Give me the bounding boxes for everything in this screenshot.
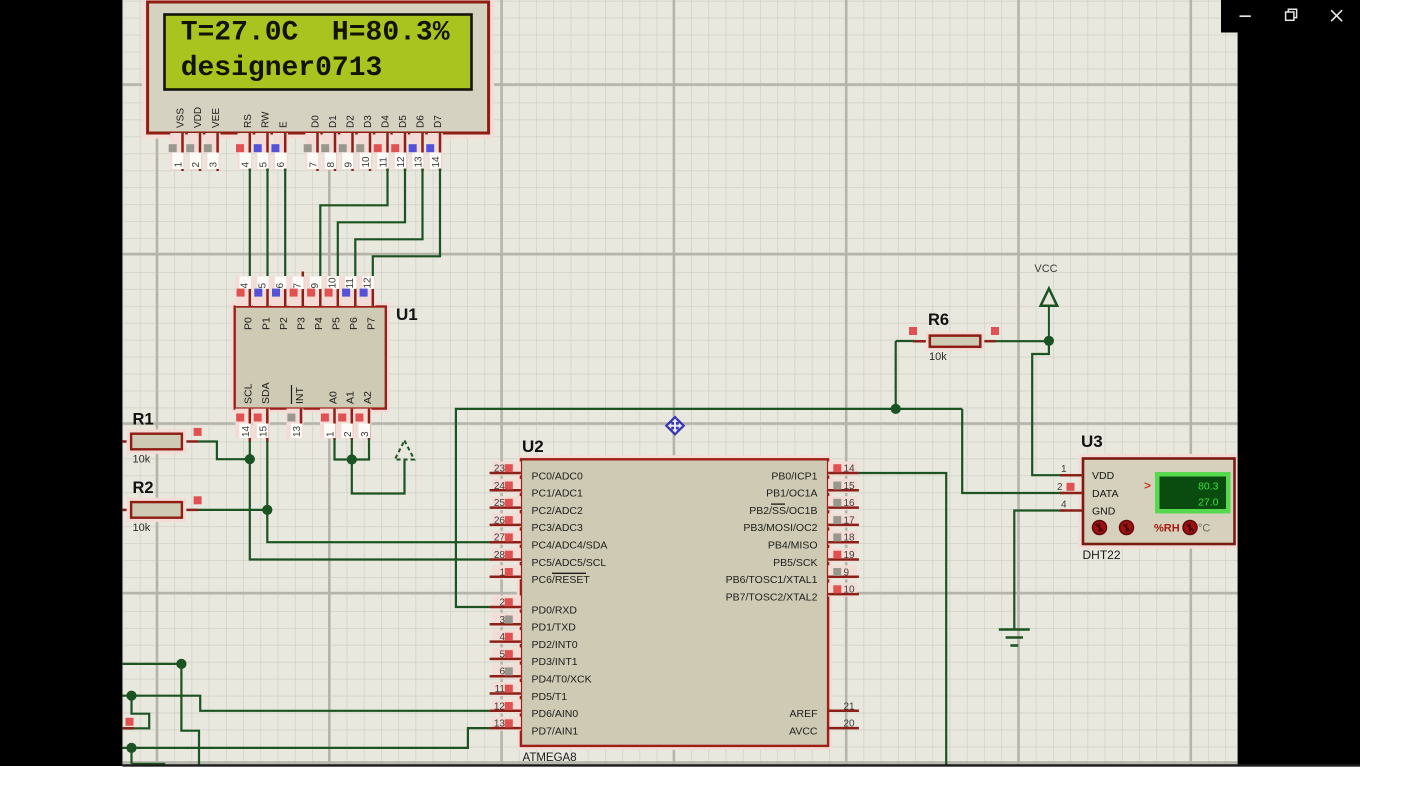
U2 right pin 14 PB0/ICP1 bbox=[771, 462, 859, 483]
U2 left pin 1 PC6/RESET bbox=[490, 565, 591, 586]
svg-text:VSS: VSS bbox=[176, 108, 187, 128]
svg-text:°C: °C bbox=[1198, 523, 1210, 535]
U3 prompt arrow bbox=[1144, 479, 1151, 493]
U2 left pin 13 PD7/AIN1 bbox=[490, 717, 579, 738]
svg-text:25: 25 bbox=[494, 498, 506, 509]
U1 reference label bbox=[396, 305, 418, 324]
svg-text:GND: GND bbox=[1092, 506, 1116, 518]
svg-text:PB2/SS/OC1B: PB2/SS/OC1B bbox=[749, 505, 817, 517]
node A0/A1/A2 junction bbox=[347, 454, 357, 464]
svg-text:PD7/AIN1: PD7/AIN1 bbox=[532, 725, 579, 737]
LCD pin 9 D2 bbox=[339, 115, 357, 171]
U2 right pin 9 PB6/TOSC1/XTAL1 bbox=[726, 565, 859, 586]
svg-text:8: 8 bbox=[326, 162, 337, 168]
svg-text:13: 13 bbox=[413, 156, 424, 168]
U2 left pin 26 PC3/ADC3 bbox=[490, 513, 583, 534]
svg-text:VDD: VDD bbox=[1092, 470, 1115, 482]
LCD pin 2 VDD bbox=[186, 107, 204, 171]
bottom white strip bbox=[0, 767, 1416, 800]
svg-text:A0: A0 bbox=[327, 391, 339, 404]
svg-text:PD0/RXD: PD0/RXD bbox=[532, 604, 578, 616]
svg-text:%RH: %RH bbox=[1154, 523, 1180, 535]
U2 left pin 12 PD6/AIN0 bbox=[490, 699, 579, 720]
svg-text:5: 5 bbox=[257, 283, 268, 289]
svg-text:11: 11 bbox=[495, 684, 506, 695]
svg-text:6: 6 bbox=[276, 162, 287, 168]
wire LCD D6(13) to U1 P6 bbox=[355, 169, 422, 307]
svg-text:10: 10 bbox=[844, 585, 856, 596]
node DATA junction at R6 bbox=[891, 404, 901, 414]
U1 bottom pin 14 SCL bbox=[235, 383, 254, 442]
svg-text:6: 6 bbox=[499, 667, 505, 678]
svg-text:23: 23 bbox=[494, 464, 506, 475]
U1 bottom pin 3 A2 bbox=[355, 391, 374, 440]
svg-text:VCC: VCC bbox=[1034, 263, 1057, 275]
svg-text:U3: U3 bbox=[1081, 432, 1103, 451]
svg-text:PD6/AIN0: PD6/AIN0 bbox=[532, 708, 579, 720]
svg-text:ATMEGA8: ATMEGA8 bbox=[523, 752, 577, 764]
wire LCD RW(5) to U1 P1 bbox=[266, 169, 268, 307]
svg-text:24: 24 bbox=[494, 481, 506, 492]
svg-text:D2: D2 bbox=[346, 115, 357, 128]
LCD pin 10 D3 bbox=[356, 115, 374, 171]
U2 left pin 23 PC0/ADC0 bbox=[490, 462, 583, 483]
LCD module LM016L body bbox=[146, 0, 491, 135]
svg-text:R1: R1 bbox=[133, 411, 154, 429]
U1 top pin 10 P5 bbox=[323, 276, 342, 330]
U2 right pin 16 PB2/SS/OC1B bbox=[749, 496, 859, 517]
U2 right pin 17 PB3/MOSI/OC2 bbox=[743, 513, 859, 534]
resistor R1 bbox=[122, 411, 201, 466]
wire SCL: U1 pin14 down to U2 PC5/SCL bbox=[250, 441, 490, 560]
wire R1 to SCL node bbox=[198, 442, 250, 460]
U2 left pin 25 PC2/ADC2 bbox=[490, 496, 583, 517]
svg-text:P3: P3 bbox=[296, 317, 308, 330]
U2 left pin 27 PC4/ADC4/SDA bbox=[490, 531, 608, 552]
restore button bbox=[1286, 9, 1297, 20]
svg-text:PD3/INT1: PD3/INT1 bbox=[532, 656, 578, 668]
svg-text:PC0/ADC0: PC0/ADC0 bbox=[532, 470, 584, 482]
svg-text:80.3: 80.3 bbox=[1198, 481, 1219, 493]
U1 top pin 6 P2 bbox=[271, 276, 290, 330]
sensor U3 DHT22 body bbox=[1081, 457, 1237, 547]
U1 bottom pin 2 A1 bbox=[337, 391, 356, 440]
MCU U2 ATMEGA8 body bbox=[519, 457, 830, 748]
LCD pin 7 D0 bbox=[304, 115, 322, 171]
wire LCD E(6) to U1 P2 bbox=[284, 169, 286, 307]
svg-text:15: 15 bbox=[258, 425, 269, 437]
svg-text:10k: 10k bbox=[133, 522, 151, 534]
LCD pin 6 E bbox=[271, 121, 289, 171]
svg-text:13: 13 bbox=[494, 719, 506, 730]
svg-text:9: 9 bbox=[310, 283, 321, 289]
svg-text:2: 2 bbox=[499, 598, 505, 609]
svg-text:PB4/MISO: PB4/MISO bbox=[768, 540, 818, 552]
wire SDA: U1 pin15 down to U2 PC4/SDA bbox=[267, 441, 489, 542]
U3 reference label bbox=[1081, 432, 1103, 451]
U2 reference label bbox=[522, 437, 544, 456]
power arrow symbol (dashed) near U1 bbox=[395, 441, 414, 460]
svg-text:PC2/ADC2: PC2/ADC2 bbox=[532, 505, 584, 517]
svg-text:D3: D3 bbox=[363, 115, 374, 128]
svg-text:PB6/TOSC1/XTAL1: PB6/TOSC1/XTAL1 bbox=[726, 574, 818, 586]
svg-text:D4: D4 bbox=[381, 115, 392, 128]
LCD pin 13 D6 bbox=[409, 115, 427, 171]
LCD pin 8 D1 bbox=[321, 115, 339, 171]
svg-text:5: 5 bbox=[258, 162, 269, 168]
wire R2 to SDA node bbox=[198, 509, 267, 511]
U1 top pin 7 P3 bbox=[288, 272, 307, 331]
svg-text:4: 4 bbox=[241, 162, 252, 168]
U3 indicator circles and units bbox=[1093, 521, 1211, 535]
wire branch down to bottom edge bbox=[132, 748, 166, 764]
LCD pin 12 D5 bbox=[391, 115, 409, 171]
svg-text:SDA: SDA bbox=[260, 382, 272, 404]
U2 left pin 11 PD5/T1 bbox=[490, 682, 568, 703]
svg-text:10k: 10k bbox=[133, 454, 151, 466]
svg-text:AREF: AREF bbox=[789, 708, 817, 720]
node SCL junction bbox=[245, 454, 255, 464]
svg-text:28: 28 bbox=[494, 550, 506, 561]
LCD pin 11 D4 bbox=[374, 115, 392, 171]
wire net to U2 PD7/AIN1 from off-screen left bbox=[122, 728, 489, 748]
U1 top pin 5 P1 bbox=[253, 276, 272, 330]
svg-text:4: 4 bbox=[1061, 499, 1067, 510]
svg-text:14: 14 bbox=[431, 156, 442, 168]
svg-text:PB3/MOSI/OC2: PB3/MOSI/OC2 bbox=[743, 522, 817, 534]
svg-text:P4: P4 bbox=[313, 317, 325, 330]
svg-text:3: 3 bbox=[499, 615, 505, 626]
svg-text:PB1/OC1A: PB1/OC1A bbox=[766, 488, 817, 500]
wire DATA rail down to U3 DATA pin bbox=[962, 409, 1064, 493]
bottom edge line bbox=[122, 764, 1360, 767]
svg-text:27: 27 bbox=[494, 533, 506, 544]
svg-text:PD1/TXD: PD1/TXD bbox=[532, 622, 577, 634]
U2 left pin 28 PC5/ADC5/SCL bbox=[490, 548, 607, 569]
wire R6 left lead down to DATA rail bbox=[896, 341, 914, 409]
svg-text:U2: U2 bbox=[522, 437, 544, 456]
svg-text:1: 1 bbox=[173, 162, 184, 168]
wire U3 GND pin to ground bbox=[1014, 511, 1064, 630]
svg-text:6: 6 bbox=[275, 283, 286, 289]
U2 right pin 21 AREF bbox=[789, 701, 858, 720]
U3 pin 4 GND bbox=[1060, 499, 1116, 517]
U2 right pin 20 AVCC bbox=[789, 719, 859, 738]
wire R6 right to VCC rail bbox=[996, 340, 1049, 342]
svg-text:DHT22: DHT22 bbox=[1083, 548, 1121, 562]
svg-text:7: 7 bbox=[308, 162, 319, 168]
svg-text:27.0: 27.0 bbox=[1198, 497, 1219, 509]
svg-text:>: > bbox=[1144, 479, 1151, 493]
move cursor (blue 4-way arrow) bbox=[665, 416, 686, 436]
node VCC junction bbox=[1044, 336, 1054, 346]
U1 top pin 11 P6 bbox=[341, 276, 360, 330]
U2 right pin 15 PB1/OC1A bbox=[766, 479, 859, 500]
svg-text:AVCC: AVCC bbox=[789, 725, 818, 737]
svg-text:PB7/TOSC2/XTAL2: PB7/TOSC2/XTAL2 bbox=[726, 591, 818, 603]
wire U2 PD0/RXD up to DATA rail bbox=[456, 409, 962, 607]
svg-text:3: 3 bbox=[208, 162, 219, 168]
svg-text:16: 16 bbox=[844, 498, 856, 509]
U2 left pin 3 PD1/TXD bbox=[490, 613, 577, 634]
svg-text:D7: D7 bbox=[433, 115, 444, 128]
svg-text:PD5/T1: PD5/T1 bbox=[532, 691, 568, 703]
wire VCC down to U3 VDD bbox=[1032, 341, 1064, 475]
U3 pin 1 VDD bbox=[1060, 464, 1115, 482]
U2 part value ATMEGA8 bbox=[523, 752, 577, 764]
svg-text:2: 2 bbox=[191, 162, 202, 168]
svg-text:P2: P2 bbox=[278, 317, 290, 330]
svg-text:5: 5 bbox=[499, 649, 505, 660]
LCD pin 4 RS bbox=[236, 114, 254, 171]
svg-text:20: 20 bbox=[844, 719, 856, 730]
U2 left pin 6 PD4/T0/XCK bbox=[490, 665, 592, 686]
svg-text:P6: P6 bbox=[348, 317, 360, 330]
wire LCD D4(11) to U1 P4 bbox=[320, 169, 387, 307]
svg-text:14: 14 bbox=[844, 464, 856, 475]
U2 right pin 10 PB7/TOSC2/XTAL2 bbox=[726, 583, 859, 604]
bold grid lines bbox=[122, 0, 1237, 766]
U2 right pin 19 PB5/SCK bbox=[773, 548, 859, 569]
svg-text:14: 14 bbox=[241, 425, 252, 437]
wire LCD D7(14) to U1 P7 bbox=[373, 169, 440, 307]
resistor R6 bbox=[909, 311, 999, 363]
LCD text line 1: T=27.0C H=80.3% bbox=[181, 18, 450, 49]
svg-text:18: 18 bbox=[844, 533, 856, 544]
LCD pin 14 D7 bbox=[426, 115, 444, 171]
svg-text:26: 26 bbox=[494, 515, 506, 526]
wire U1 A0 to junction bbox=[335, 439, 352, 460]
svg-text:RS: RS bbox=[243, 114, 254, 128]
svg-text:RW: RW bbox=[261, 111, 272, 128]
svg-text:4: 4 bbox=[499, 632, 505, 643]
svg-text:12: 12 bbox=[494, 701, 506, 712]
U1 bottom pin 15 SDA bbox=[253, 382, 272, 442]
svg-text:2: 2 bbox=[1057, 482, 1063, 493]
svg-text:T=27.0C H=80.3%: T=27.0C H=80.3% bbox=[181, 18, 450, 49]
svg-text:4: 4 bbox=[240, 283, 251, 289]
svg-text:10: 10 bbox=[361, 156, 372, 168]
svg-text:10: 10 bbox=[328, 277, 339, 289]
svg-text:PC4/ADC4/SDA: PC4/ADC4/SDA bbox=[532, 540, 608, 552]
svg-text:PC6/RESET: PC6/RESET bbox=[532, 574, 591, 586]
node PD7 net junction bbox=[126, 743, 136, 753]
svg-text:PB5/SCK: PB5/SCK bbox=[773, 557, 817, 569]
U1 top pin 9 P4 bbox=[306, 276, 325, 330]
node left net junction bbox=[176, 659, 186, 669]
svg-text:VDD: VDD bbox=[193, 107, 204, 128]
LCD green screen bbox=[165, 15, 472, 90]
U1 top pin 12 P7 bbox=[358, 276, 377, 330]
wire branch stair to off-screen pin (left) bbox=[124, 696, 149, 729]
U2 left pin 5 PD3/INT1 bbox=[490, 647, 578, 668]
svg-text:PC1/ADC1: PC1/ADC1 bbox=[532, 488, 584, 500]
svg-text:VEE: VEE bbox=[211, 108, 222, 128]
svg-text:E: E bbox=[278, 121, 289, 128]
svg-text:PD2/INT0: PD2/INT0 bbox=[532, 639, 578, 651]
left black panel bbox=[0, 0, 122, 766]
window title bar bbox=[1221, 0, 1360, 33]
close button bbox=[1331, 10, 1342, 21]
svg-text:P7: P7 bbox=[366, 317, 378, 330]
svg-text:designer0713: designer0713 bbox=[181, 53, 383, 84]
svg-text:1: 1 bbox=[326, 431, 337, 437]
U3 pin 2 DATA bbox=[1057, 482, 1119, 500]
svg-text:SCL: SCL bbox=[243, 383, 255, 404]
wire U1 A1 junction down to arrow symbol bbox=[352, 439, 405, 494]
svg-text:3: 3 bbox=[360, 431, 371, 437]
wire U1 A2 to junction bbox=[352, 439, 369, 460]
svg-text:U1: U1 bbox=[396, 305, 418, 324]
ground symbol bbox=[999, 630, 1030, 646]
svg-text:1: 1 bbox=[499, 567, 505, 578]
svg-text:12: 12 bbox=[363, 277, 374, 289]
svg-text:10k: 10k bbox=[929, 351, 947, 363]
svg-text:PB0/ICP1: PB0/ICP1 bbox=[771, 470, 817, 482]
svg-text:11: 11 bbox=[345, 278, 356, 289]
node SDA junction bbox=[262, 505, 272, 515]
svg-text:D5: D5 bbox=[398, 115, 409, 128]
wire LCD D5(12) to U1 P5 bbox=[338, 169, 405, 307]
svg-text:7: 7 bbox=[293, 283, 304, 289]
right black panel bbox=[1238, 0, 1360, 766]
svg-text:9: 9 bbox=[343, 162, 354, 168]
svg-text:R2: R2 bbox=[133, 479, 154, 497]
svg-text:P5: P5 bbox=[331, 317, 343, 330]
wire net from off-screen left going to bottom edge bbox=[122, 664, 199, 765]
schematic grid sheet bbox=[122, 0, 1237, 766]
svg-text:DATA: DATA bbox=[1092, 488, 1118, 500]
U2 left pin 4 PD2/INT0 bbox=[490, 630, 578, 651]
svg-text:P0: P0 bbox=[243, 317, 255, 330]
resistor R2 bbox=[122, 479, 201, 534]
U2 right pin 18 PB4/MISO bbox=[768, 531, 859, 552]
minimize button bbox=[1240, 15, 1251, 17]
U1 top pin 4 P0 bbox=[235, 276, 254, 330]
svg-text:9: 9 bbox=[844, 567, 850, 578]
U1 bottom pin 13 INT bbox=[287, 385, 306, 439]
U3 green display bbox=[1155, 472, 1231, 514]
LCD pin 3 VEE bbox=[204, 108, 222, 171]
svg-text:R6: R6 bbox=[928, 311, 949, 329]
LCD pin 5 RW bbox=[254, 111, 272, 171]
svg-text:19: 19 bbox=[844, 550, 856, 561]
svg-text:PC5/ADC5/SCL: PC5/ADC5/SCL bbox=[532, 557, 607, 569]
wire LCD RS(4) to U1 P0 bbox=[249, 169, 251, 307]
svg-text:A2: A2 bbox=[362, 391, 374, 404]
svg-text:D1: D1 bbox=[328, 115, 339, 128]
svg-text:PD4/T0/XCK: PD4/T0/XCK bbox=[532, 674, 592, 686]
svg-text:P1: P1 bbox=[260, 317, 272, 330]
LCD pin 1 VSS bbox=[169, 108, 187, 171]
power VCC symbol bbox=[1034, 263, 1057, 341]
op IC U1 PCF8574 body bbox=[233, 305, 388, 411]
svg-text:17: 17 bbox=[844, 515, 856, 526]
node PD6 net junction bbox=[126, 691, 136, 701]
U2 left pin 24 PC1/ADC1 bbox=[490, 479, 583, 500]
svg-text:1: 1 bbox=[1061, 464, 1067, 475]
off-screen pin stub bbox=[122, 718, 134, 729]
svg-text:2: 2 bbox=[343, 431, 354, 437]
svg-text:INT: INT bbox=[294, 387, 306, 405]
svg-text:D6: D6 bbox=[416, 115, 427, 128]
U2 left pin 2 PD0/RXD bbox=[490, 596, 578, 617]
right white strip bbox=[1360, 0, 1416, 800]
wire U2 PB0/ICP1 down to bottom edge bbox=[859, 473, 946, 765]
svg-text:15: 15 bbox=[844, 481, 856, 492]
svg-text:11: 11 bbox=[378, 157, 389, 168]
U3 part value DHT22 bbox=[1083, 548, 1121, 562]
svg-text:D0: D0 bbox=[311, 115, 322, 128]
LCD text line 2: designer0713 bbox=[181, 53, 383, 84]
svg-text:PC3/ADC3: PC3/ADC3 bbox=[532, 522, 584, 534]
U1 bottom pin 1 A0 bbox=[320, 391, 339, 440]
svg-text:21: 21 bbox=[844, 701, 856, 712]
wire net to U2 PD6/AIN0 from off-screen left bbox=[122, 696, 489, 711]
svg-text:12: 12 bbox=[396, 156, 407, 168]
svg-text:A1: A1 bbox=[345, 391, 357, 404]
svg-text:13: 13 bbox=[292, 425, 303, 437]
